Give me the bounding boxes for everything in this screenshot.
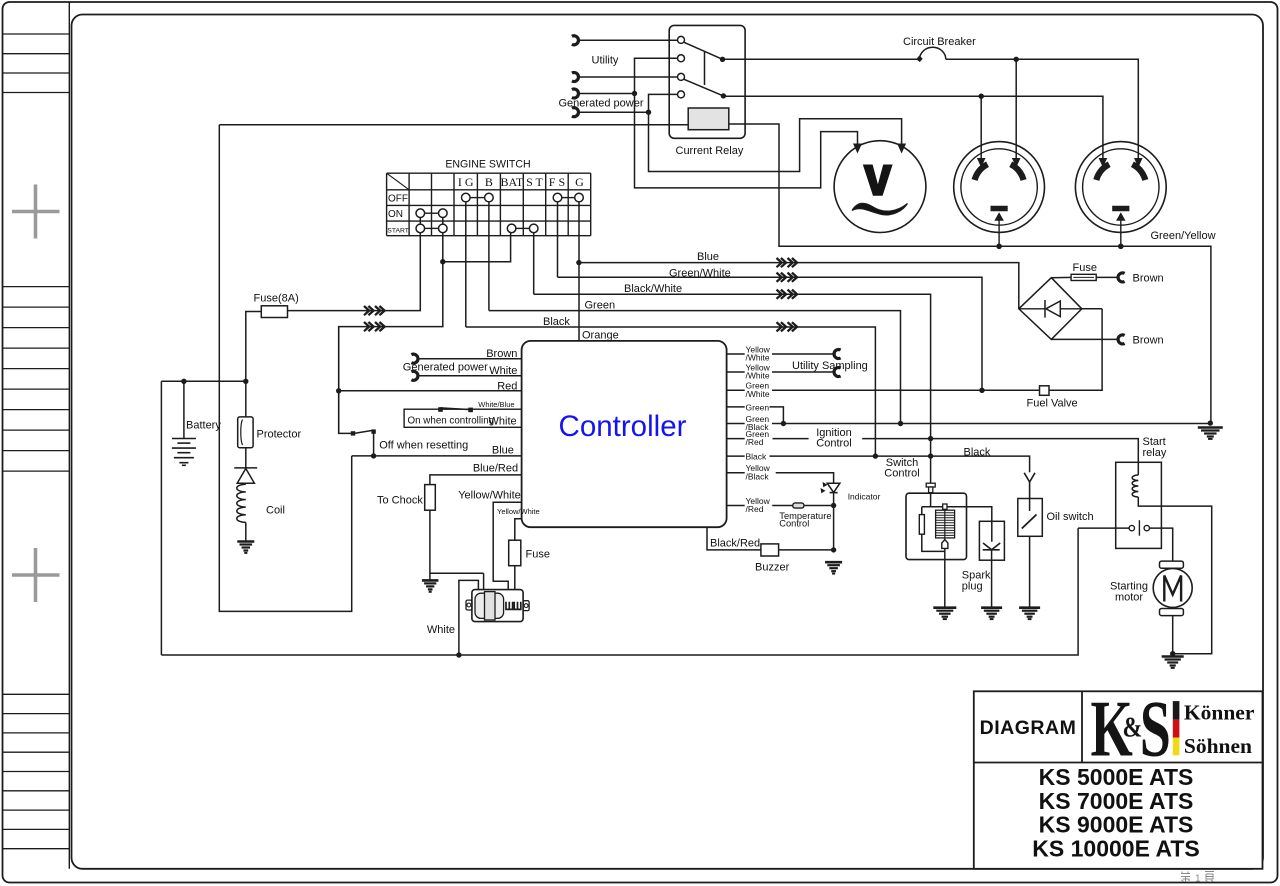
svg-text:1: 1 — [1195, 874, 1201, 885]
svg-text:/White: /White — [746, 371, 770, 381]
svg-text:Red: Red — [497, 380, 517, 392]
svg-text:START: START — [387, 227, 409, 234]
svg-text:OFF: OFF — [388, 194, 408, 205]
svg-text:F S: F S — [549, 175, 565, 189]
svg-text:/Black: /Black — [746, 471, 770, 481]
svg-text:DIAGRAM: DIAGRAM — [980, 717, 1077, 739]
svg-text:KS 5000E ATS: KS 5000E ATS — [1039, 764, 1194, 790]
svg-text:I G: I G — [458, 175, 474, 189]
svg-text:Indicator: Indicator — [848, 491, 881, 501]
svg-text:Black/Red: Black/Red — [710, 538, 760, 550]
svg-text:/Red: /Red — [746, 504, 764, 514]
svg-text:Blue: Blue — [492, 445, 514, 457]
svg-text:ENGINE SWITCH: ENGINE SWITCH — [445, 158, 530, 170]
svg-text:Söhnen: Söhnen — [1184, 734, 1252, 758]
svg-text:Control: Control — [779, 518, 809, 528]
svg-text:KS 10000E ATS: KS 10000E ATS — [1032, 835, 1199, 861]
svg-text:Yellow/White: Yellow/White — [497, 507, 540, 516]
svg-text:Fuel Valve: Fuel Valve — [1027, 398, 1078, 410]
svg-text:Brown: Brown — [1133, 272, 1164, 284]
svg-text:White/Blue: White/Blue — [478, 400, 514, 409]
svg-text:Brown: Brown — [1133, 334, 1164, 346]
svg-text:/White: /White — [746, 389, 770, 399]
svg-text:Battery: Battery — [186, 420, 221, 432]
svg-text:Yellow/White: Yellow/White — [458, 490, 521, 502]
svg-text:S: S — [1140, 683, 1171, 772]
svg-text:Coil: Coil — [266, 505, 285, 517]
svg-text:Utility: Utility — [592, 55, 619, 67]
svg-text:ON: ON — [388, 209, 403, 220]
svg-text:Fuse: Fuse — [1073, 262, 1097, 274]
svg-text:Buzzer: Buzzer — [755, 561, 790, 573]
svg-text:Blue/Red: Blue/Red — [473, 462, 518, 474]
svg-text:Utility Sampling: Utility Sampling — [792, 360, 868, 372]
svg-text:/White: /White — [746, 353, 770, 363]
svg-text:White: White — [489, 415, 517, 427]
svg-text:Control: Control — [816, 438, 851, 450]
svg-text:plug: plug — [962, 581, 983, 593]
svg-text:B: B — [485, 175, 493, 189]
svg-text:Protector: Protector — [257, 429, 302, 441]
svg-text:Black: Black — [964, 446, 991, 458]
svg-text:Green/White: Green/White — [669, 267, 731, 279]
svg-text:Generated power: Generated power — [559, 98, 644, 110]
svg-text:White: White — [489, 365, 517, 377]
svg-text:Green/Yellow: Green/Yellow — [1151, 230, 1216, 242]
svg-text:Generated power: Generated power — [403, 361, 488, 373]
svg-text:To Chock: To Chock — [377, 495, 423, 507]
svg-text:G: G — [575, 175, 584, 189]
svg-text:Off when resetting: Off when resetting — [379, 439, 468, 451]
svg-text:On when controlling: On when controlling — [408, 415, 495, 426]
svg-text:KS 9000E ATS: KS 9000E ATS — [1039, 812, 1194, 838]
svg-text:Black: Black — [543, 316, 570, 328]
svg-text:White: White — [427, 624, 455, 636]
svg-text:Blue: Blue — [697, 251, 719, 263]
svg-text:BAT: BAT — [501, 175, 524, 189]
svg-text:motor: motor — [1115, 591, 1143, 603]
svg-text:Fuse: Fuse — [526, 549, 550, 561]
svg-text:Oil switch: Oil switch — [1047, 511, 1094, 523]
svg-text:relay: relay — [1143, 447, 1167, 459]
svg-text:Fuse(8A): Fuse(8A) — [254, 293, 299, 305]
svg-text:Green: Green — [746, 402, 770, 412]
svg-text:Black: Black — [746, 452, 768, 462]
svg-text:Black/White: Black/White — [624, 283, 682, 295]
svg-text:Green: Green — [585, 300, 616, 312]
svg-text:/Red: /Red — [746, 437, 764, 447]
svg-text:KS 7000E ATS: KS 7000E ATS — [1039, 788, 1194, 814]
svg-text:Circuit Breaker: Circuit Breaker — [903, 36, 976, 48]
svg-text:S T: S T — [526, 175, 543, 189]
svg-text:Controller: Controller — [559, 410, 687, 443]
svg-text:Könner: Könner — [1184, 701, 1255, 725]
svg-text:Control: Control — [884, 468, 919, 480]
svg-text:Brown: Brown — [486, 348, 517, 360]
svg-text:Current Relay: Current Relay — [676, 145, 744, 157]
svg-text:Orange: Orange — [582, 329, 619, 341]
